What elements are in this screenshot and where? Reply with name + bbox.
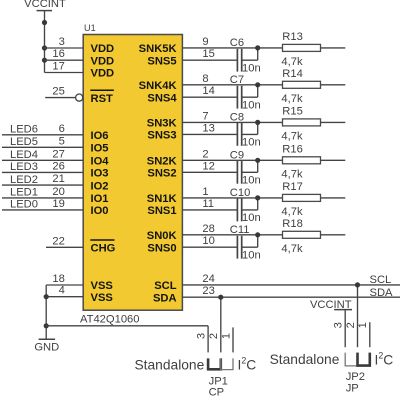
svg-text:LED5: LED5 (10, 136, 38, 148)
svg-text:LED3: LED3 (10, 161, 38, 173)
svg-text:6: 6 (59, 123, 65, 135)
svg-text:4,7k: 4,7k (281, 168, 303, 180)
svg-text:19: 19 (52, 198, 64, 210)
svg-text:2: 2 (345, 322, 357, 328)
svg-text:IO0: IO0 (91, 205, 109, 217)
svg-text:VSS: VSS (91, 292, 114, 304)
svg-text:SDA: SDA (153, 292, 177, 304)
svg-text:3: 3 (59, 36, 65, 48)
svg-text:SNS4: SNS4 (147, 92, 177, 104)
svg-text:10n: 10n (242, 137, 261, 149)
svg-text:14: 14 (202, 85, 214, 97)
svg-text:4: 4 (59, 285, 65, 297)
svg-text:21: 21 (52, 173, 64, 185)
svg-text:SN2K: SN2K (147, 156, 177, 168)
svg-text:C9: C9 (230, 149, 244, 161)
svg-text:SNK4K: SNK4K (139, 80, 177, 92)
svg-text:10n: 10n (242, 174, 261, 186)
svg-text:SNS1: SNS1 (147, 205, 176, 217)
svg-text:28: 28 (202, 223, 214, 235)
svg-text:LED4: LED4 (10, 149, 38, 161)
svg-text:1: 1 (220, 333, 232, 339)
svg-text:R18: R18 (282, 218, 303, 230)
svg-text:SN1K: SN1K (147, 193, 177, 205)
svg-text:24: 24 (202, 273, 214, 285)
svg-text:JP1: JP1 (209, 375, 228, 387)
svg-text:3: 3 (333, 322, 345, 328)
svg-text:23: 23 (202, 285, 214, 297)
svg-text:4,7k: 4,7k (281, 206, 303, 218)
svg-text:VDD: VDD (91, 68, 115, 80)
svg-text:2: 2 (208, 333, 220, 339)
svg-text:LED0: LED0 (10, 199, 38, 211)
svg-text:R17: R17 (282, 181, 303, 193)
svg-text:11: 11 (202, 198, 214, 210)
svg-text:SNS3: SNS3 (147, 130, 176, 142)
svg-text:GND: GND (34, 341, 59, 353)
svg-text:SNS2: SNS2 (147, 168, 176, 180)
svg-text:I2C: I2C (238, 356, 257, 373)
svg-text:1: 1 (202, 186, 208, 198)
svg-text:SCL: SCL (370, 274, 392, 286)
svg-text:LED1: LED1 (10, 187, 38, 199)
svg-text:VDD: VDD (91, 55, 115, 67)
svg-text:LED2: LED2 (10, 174, 38, 186)
svg-text:SDA: SDA (370, 287, 394, 299)
svg-text:SCL: SCL (154, 280, 177, 292)
svg-text:5: 5 (59, 135, 65, 147)
svg-text:C10: C10 (230, 187, 251, 199)
svg-text:R14: R14 (282, 68, 303, 80)
svg-text:20: 20 (52, 186, 64, 198)
svg-text:16: 16 (52, 48, 64, 60)
svg-text:R16: R16 (282, 144, 303, 156)
svg-text:C6: C6 (230, 37, 244, 49)
svg-text:8: 8 (202, 73, 208, 85)
svg-text:Standalone: Standalone (270, 352, 340, 367)
svg-text:SNS5: SNS5 (147, 55, 176, 67)
svg-text:13: 13 (202, 122, 214, 134)
svg-text:SN0K: SN0K (147, 230, 177, 242)
svg-text:VDD: VDD (91, 43, 115, 55)
svg-text:CHG: CHG (91, 243, 116, 255)
svg-text:IO1: IO1 (91, 193, 109, 205)
svg-text:JP2: JP2 (346, 371, 365, 383)
svg-text:RST: RST (91, 93, 114, 105)
svg-text:I2C: I2C (375, 350, 394, 367)
svg-text:C8: C8 (230, 112, 244, 124)
svg-text:C11: C11 (230, 224, 250, 236)
svg-text:IO6: IO6 (91, 130, 109, 142)
svg-text:C7: C7 (230, 74, 244, 86)
svg-text:7: 7 (202, 110, 208, 122)
svg-text:4,7k: 4,7k (281, 93, 303, 105)
svg-text:IO3: IO3 (91, 168, 109, 180)
svg-text:22: 22 (52, 235, 64, 247)
svg-text:VCCINT: VCCINT (24, 0, 66, 10)
svg-text:10: 10 (202, 235, 214, 247)
svg-text:SNK5K: SNK5K (139, 43, 177, 55)
svg-text:JP: JP (346, 383, 359, 395)
svg-text:SNS0: SNS0 (147, 242, 176, 254)
svg-text:CP: CP (209, 387, 225, 398)
svg-text:LED6: LED6 (10, 124, 38, 136)
svg-text:10n: 10n (242, 212, 261, 224)
svg-text:12: 12 (202, 160, 214, 172)
svg-text:10n: 10n (242, 249, 261, 261)
svg-text:27: 27 (52, 148, 64, 160)
svg-text:10n: 10n (242, 62, 261, 74)
svg-text:10n: 10n (242, 99, 261, 111)
svg-text:SN3K: SN3K (147, 118, 177, 130)
svg-text:VSS: VSS (91, 280, 114, 292)
svg-text:4,7k: 4,7k (281, 130, 303, 142)
svg-text:25: 25 (52, 86, 64, 98)
svg-text:17: 17 (52, 61, 64, 73)
svg-text:15: 15 (202, 48, 214, 60)
svg-text:26: 26 (52, 160, 64, 172)
svg-text:4,7k: 4,7k (281, 243, 303, 255)
svg-text:2: 2 (202, 148, 208, 160)
svg-text:R13: R13 (282, 31, 303, 43)
svg-text:AT42Q1060: AT42Q1060 (80, 313, 140, 325)
svg-text:4,7k: 4,7k (281, 56, 303, 68)
svg-text:IO2: IO2 (91, 180, 109, 192)
svg-text:9: 9 (202, 36, 208, 48)
svg-text:3: 3 (196, 333, 208, 339)
svg-text:IO4: IO4 (91, 156, 110, 168)
svg-text:R15: R15 (282, 106, 303, 118)
svg-text:Standalone: Standalone (134, 357, 204, 372)
svg-text:1: 1 (357, 322, 369, 328)
svg-text:U1: U1 (84, 23, 96, 33)
svg-text:18: 18 (52, 273, 64, 285)
svg-text:IO5: IO5 (91, 143, 109, 155)
